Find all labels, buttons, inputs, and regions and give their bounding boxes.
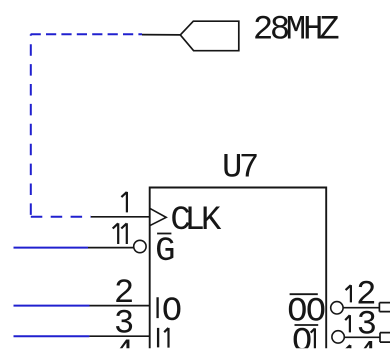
pin name I1 (157, 328, 159, 348)
wire: dashed blue run into pin 1 (31, 216, 91, 218)
svg-text:4: 4 (357, 337, 377, 357)
pin name I0 (156, 297, 158, 318)
svg-text:4: 4 (114, 335, 134, 357)
pin 12 number (346, 285, 351, 302)
wire: blue net to pin 3 (14, 335, 90, 337)
overbar for O0 (290, 293, 318, 295)
pin 11 number (113, 223, 127, 244)
pin 3 wire (89, 335, 149, 337)
pin 11 wire (88, 247, 134, 249)
pin 12 inversion bubble (331, 302, 343, 314)
pin 14 number (clipped at frame bottom) (346, 345, 351, 357)
svg-text:28MHZ: 28MHZ (253, 11, 340, 49)
pin 1 wire (91, 216, 150, 218)
wire: blue net to pin 11 (14, 247, 89, 249)
IC U7 body (150, 188, 327, 357)
pin 1 number (121, 192, 127, 213)
wire: dashed blue net 28MHZ horizontal run (31, 33, 142, 35)
svg-text:G: G (155, 233, 175, 271)
overbar for G (157, 233, 171, 235)
power flag 28MHZ (180, 21, 239, 51)
overbar for O1 (295, 324, 319, 326)
svg-text:O: O (162, 293, 182, 331)
pin 13 wire (344, 336, 380, 338)
pin 13 inversion bubble (332, 331, 344, 343)
pin 2 wire (90, 305, 150, 307)
pin 13 number (345, 315, 350, 332)
off-page connector at pin 12 (379, 303, 390, 312)
wire: dashed blue net vertical run (30, 34, 32, 217)
pin 11 inversion bubble (134, 240, 146, 252)
svg-text:O: O (292, 323, 312, 357)
wire: 28MHZ flag lead (142, 34, 180, 36)
svg-text:CLK: CLK (170, 202, 222, 240)
wire: blue net to pin 2 (14, 305, 90, 307)
svg-text:U7: U7 (222, 149, 259, 187)
pin 12 wire (343, 307, 379, 309)
clock input symbol (150, 208, 167, 225)
off-page connector at pin 13 (380, 333, 390, 343)
